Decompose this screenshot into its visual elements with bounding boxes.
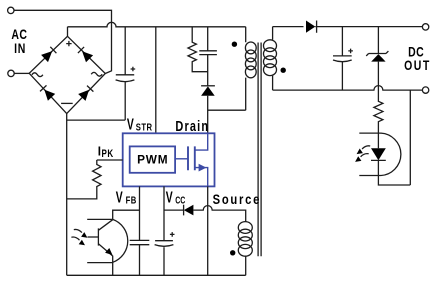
svg-text:FB: FB — [126, 194, 137, 205]
svg-text:OUT: OUT — [404, 57, 431, 73]
svg-text:STR: STR — [136, 122, 153, 133]
svg-text:I: I — [98, 144, 101, 159]
svg-text:Source: Source — [213, 192, 261, 207]
svg-text:IN: IN — [14, 41, 26, 57]
svg-text:PK: PK — [102, 148, 114, 161]
svg-text:Drain: Drain — [175, 117, 209, 134]
svg-text:CC: CC — [175, 194, 186, 206]
svg-text:V: V — [127, 115, 134, 133]
svg-text:V: V — [166, 188, 173, 206]
svg-text:PWM: PWM — [137, 152, 168, 166]
svg-text:V: V — [116, 188, 123, 206]
